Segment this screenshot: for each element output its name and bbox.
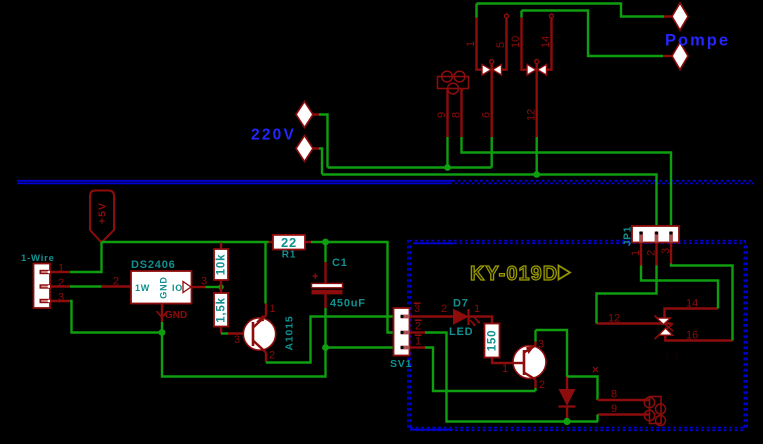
- svg-text:2: 2: [269, 350, 275, 362]
- wire: pin 6 net down to 220V line A: [481, 112, 493, 168]
- svg-text:SV1: SV1: [390, 358, 412, 370]
- wire: SV1 pin2 net down to relay coil return: [425, 333, 598, 422]
- wire: junction down to C1: [324, 242, 326, 262]
- relay contact pin 1: [465, 4, 482, 70]
- KY-019D module boundary box (blue dashed): [408, 240, 747, 430]
- relay contact pin 10: [510, 11, 527, 70]
- svg-text:3: 3: [660, 248, 672, 254]
- svg-text:LED: LED: [449, 326, 473, 338]
- flag 220V 1 (diamond): [296, 102, 319, 128]
- SV1 pin 2 line: [410, 320, 426, 332]
- svg-text:14: 14: [540, 36, 552, 48]
- svg-text:16: 16: [686, 330, 698, 342]
- svg-text:6: 6: [481, 112, 493, 118]
- wire: SV1 pin1 net to Q2 emitter: [425, 348, 536, 392]
- svg-text:2: 2: [113, 276, 119, 288]
- wire: coil pin 8 to JP1 pin 3 (long net): [462, 137, 672, 230]
- wire: net to Pompe flag 2: [522, 11, 664, 57]
- svg-text:8: 8: [611, 389, 617, 401]
- svg-text:A1015: A1015: [284, 316, 296, 351]
- wire: net to Pompe flag 1: [477, 4, 665, 17]
- X1 pin 3: [50, 292, 70, 304]
- relay coil K1 (top, pins 9-8): [438, 71, 469, 94]
- wire: 220V flag2 to line B: [319, 149, 322, 175]
- svg-text:1: 1: [502, 363, 508, 375]
- relay contact pin 14: [540, 14, 554, 70]
- svg-text:22: 22: [281, 235, 297, 250]
- SV1 pin 1 line: [410, 335, 426, 347]
- X1 pin 1: [50, 263, 70, 275]
- svg-text:1: 1: [630, 250, 642, 256]
- wire: Q2 emitter to pin1 net: [534, 388, 536, 391]
- svg-text:3: 3: [234, 334, 240, 346]
- relay contact K1 inside module (pins 12-14-16): [597, 298, 733, 342]
- svg-text:9: 9: [611, 403, 617, 415]
- wire: 220V line B: [322, 175, 657, 231]
- wire: 220V flag1 to line A: [319, 115, 328, 168]
- flag Pompe 2 (diamond): [663, 43, 688, 70]
- wire: diode anode over to coil pin 8: [567, 377, 598, 401]
- svg-text:8: 8: [451, 112, 463, 118]
- svg-text:DS2406: DS2406: [131, 259, 176, 271]
- X1 pin 2: [50, 277, 70, 289]
- wire: blue separator bus solid part: [17, 181, 452, 184]
- relay coil K1 pin 9 (bottom): [598, 403, 651, 415]
- wire: JP1 pin2 to contact common 12: [597, 266, 657, 324]
- connector JP1 (3 pins): [623, 226, 679, 246]
- svg-text:1: 1: [58, 263, 64, 275]
- wire: pin 12 net down to 220V line B: [526, 109, 538, 175]
- wire: coil pin 9 to cathode net: [596, 415, 598, 422]
- svg-text:2: 2: [415, 321, 421, 333]
- SV1 pin 3 line into module: [410, 303, 456, 317]
- wire: junction to SV1 pin 1: [326, 346, 394, 348]
- wire: Q2 collector up and over to diode: [534, 330, 536, 342]
- relay contact K1 switch 2 (pins 10-14-12): [527, 60, 547, 138]
- wire: blue separator bus dashed part: [452, 181, 754, 184]
- svg-text:2: 2: [441, 303, 447, 315]
- wire: LED cathode to R4: [468, 317, 493, 324]
- wire: coil pin 9 to line A junction: [446, 137, 448, 168]
- coil pin 8: [451, 89, 463, 138]
- diode D2 (flyback): [559, 377, 576, 422]
- svg-text:14: 14: [686, 298, 698, 310]
- svg-text:GND: GND: [159, 276, 169, 298]
- relay coil K1 pin 8 (bottom): [598, 389, 651, 401]
- svg-text:1: 1: [270, 303, 276, 315]
- svg-text:R1: R1: [282, 250, 296, 261]
- svg-text:10k: 10k: [216, 254, 228, 276]
- IC U1 DS2406: [131, 259, 192, 304]
- label KY-019D: [470, 263, 570, 285]
- svg-text:2: 2: [646, 250, 658, 256]
- svg-text:150: 150: [487, 330, 499, 352]
- U1 IO pin 3: [192, 276, 208, 288]
- wire: JP1 pin1 to contact pin14: [641, 266, 718, 309]
- wire: GND pin to junction: [161, 322, 163, 333]
- JP1 pin 3: [660, 243, 672, 264]
- resistor R4 150: [485, 324, 514, 376]
- svg-text:450uF: 450uF: [330, 298, 366, 310]
- junction GND / SV1 pin1: [322, 344, 329, 351]
- wire: R3 to Q1 base: [221, 332, 228, 334]
- svg-text:9: 9: [436, 112, 448, 118]
- junction diode cathode net: [563, 418, 570, 425]
- wire: IO node to resistors: [206, 286, 222, 288]
- flag 220V 2 (diamond): [296, 136, 319, 162]
- transistor Q1 A1015 (PNP): [228, 303, 296, 363]
- wire: X1 pin2 to DS2406 1W: [70, 285, 102, 287]
- resistor R3 1,5k: [214, 287, 228, 334]
- svg-text:12: 12: [608, 313, 620, 325]
- junction IO node: [218, 284, 224, 290]
- relay contact pin 5: [495, 14, 509, 70]
- resistor R1 22: [269, 235, 312, 261]
- svg-text:C1: C1: [332, 257, 348, 269]
- svg-text:1,5k: 1,5k: [216, 297, 228, 323]
- power symbol +5V: [90, 191, 114, 243]
- svg-text:+: +: [312, 271, 318, 283]
- flag Pompe 1 (diamond): [664, 3, 688, 30]
- resistor R2 10k: [214, 243, 228, 288]
- svg-text:3: 3: [58, 292, 64, 304]
- svg-text:JP1: JP1: [623, 226, 634, 246]
- svg-text:3: 3: [414, 303, 420, 315]
- svg-text:D7: D7: [453, 298, 469, 310]
- wire: JP1 pin3 to contact pin16: [671, 264, 733, 341]
- svg-text:(...): (...): [666, 351, 678, 360]
- svg-text:3: 3: [201, 276, 207, 288]
- small cross marker: [593, 367, 598, 372]
- wire: +5V rail: [102, 241, 269, 243]
- wire: X1 pin3 to GND net: [70, 301, 162, 333]
- relay coil K1 (bottom symbol): [644, 397, 665, 426]
- svg-text:220V: 220V: [251, 127, 296, 144]
- svg-text:+5V: +5V: [97, 202, 109, 224]
- LED D7: [449, 298, 480, 339]
- junction on line B at pin 12: [533, 171, 540, 178]
- svg-text:Pompe: Pompe: [665, 32, 730, 50]
- U1 GND pin and GND supply symbol: [157, 304, 188, 323]
- wire: Q1 collector to SV1 pin3 net: [266, 317, 394, 363]
- junction GND net: [159, 329, 166, 336]
- svg-text:KY-019D: KY-019D: [470, 263, 558, 285]
- JP1 pin 1: [630, 243, 642, 266]
- svg-text:1: 1: [415, 336, 421, 348]
- wire: 220V line A: [328, 166, 492, 168]
- svg-text:1: 1: [474, 303, 480, 315]
- wire: +5V rail right segment: [311, 242, 394, 333]
- wire: +5V down to 1-Wire pin 1: [70, 242, 102, 272]
- DS2406 pin 2 (1W): [102, 276, 132, 288]
- svg-text:1-Wire: 1-Wire: [21, 253, 55, 264]
- svg-text:10: 10: [510, 36, 522, 48]
- transistor Q2 (NPN): [513, 339, 546, 392]
- svg-text:1: 1: [465, 41, 477, 47]
- svg-text:3: 3: [538, 339, 544, 351]
- coil pin 9: [436, 89, 448, 138]
- JP1 pin 2: [646, 243, 658, 266]
- connector X1 1-Wire (3 pins): [34, 264, 51, 309]
- wire: C1 negative to GND junction: [324, 308, 326, 348]
- svg-text:2: 2: [539, 379, 545, 391]
- svg-text:2: 2: [58, 277, 64, 289]
- junction on line A at pin 9: [444, 164, 451, 171]
- junction +5V rail / C1: [322, 239, 329, 246]
- capacitor C1 450uF (polarized): [312, 257, 366, 310]
- svg-text:5: 5: [495, 42, 507, 48]
- wire: GND net bottom rail: [162, 333, 326, 377]
- svg-text:IO: IO: [172, 283, 183, 293]
- svg-text:12: 12: [526, 109, 538, 121]
- relay contact K1 switch 1 (pins 1-5-6): [482, 60, 502, 138]
- svg-text:GND: GND: [165, 310, 187, 321]
- svg-text:1W: 1W: [135, 283, 150, 293]
- connector SV1 (3 pins): [390, 308, 412, 370]
- wire: Q1 emitter up to +5V rail: [264, 242, 266, 304]
